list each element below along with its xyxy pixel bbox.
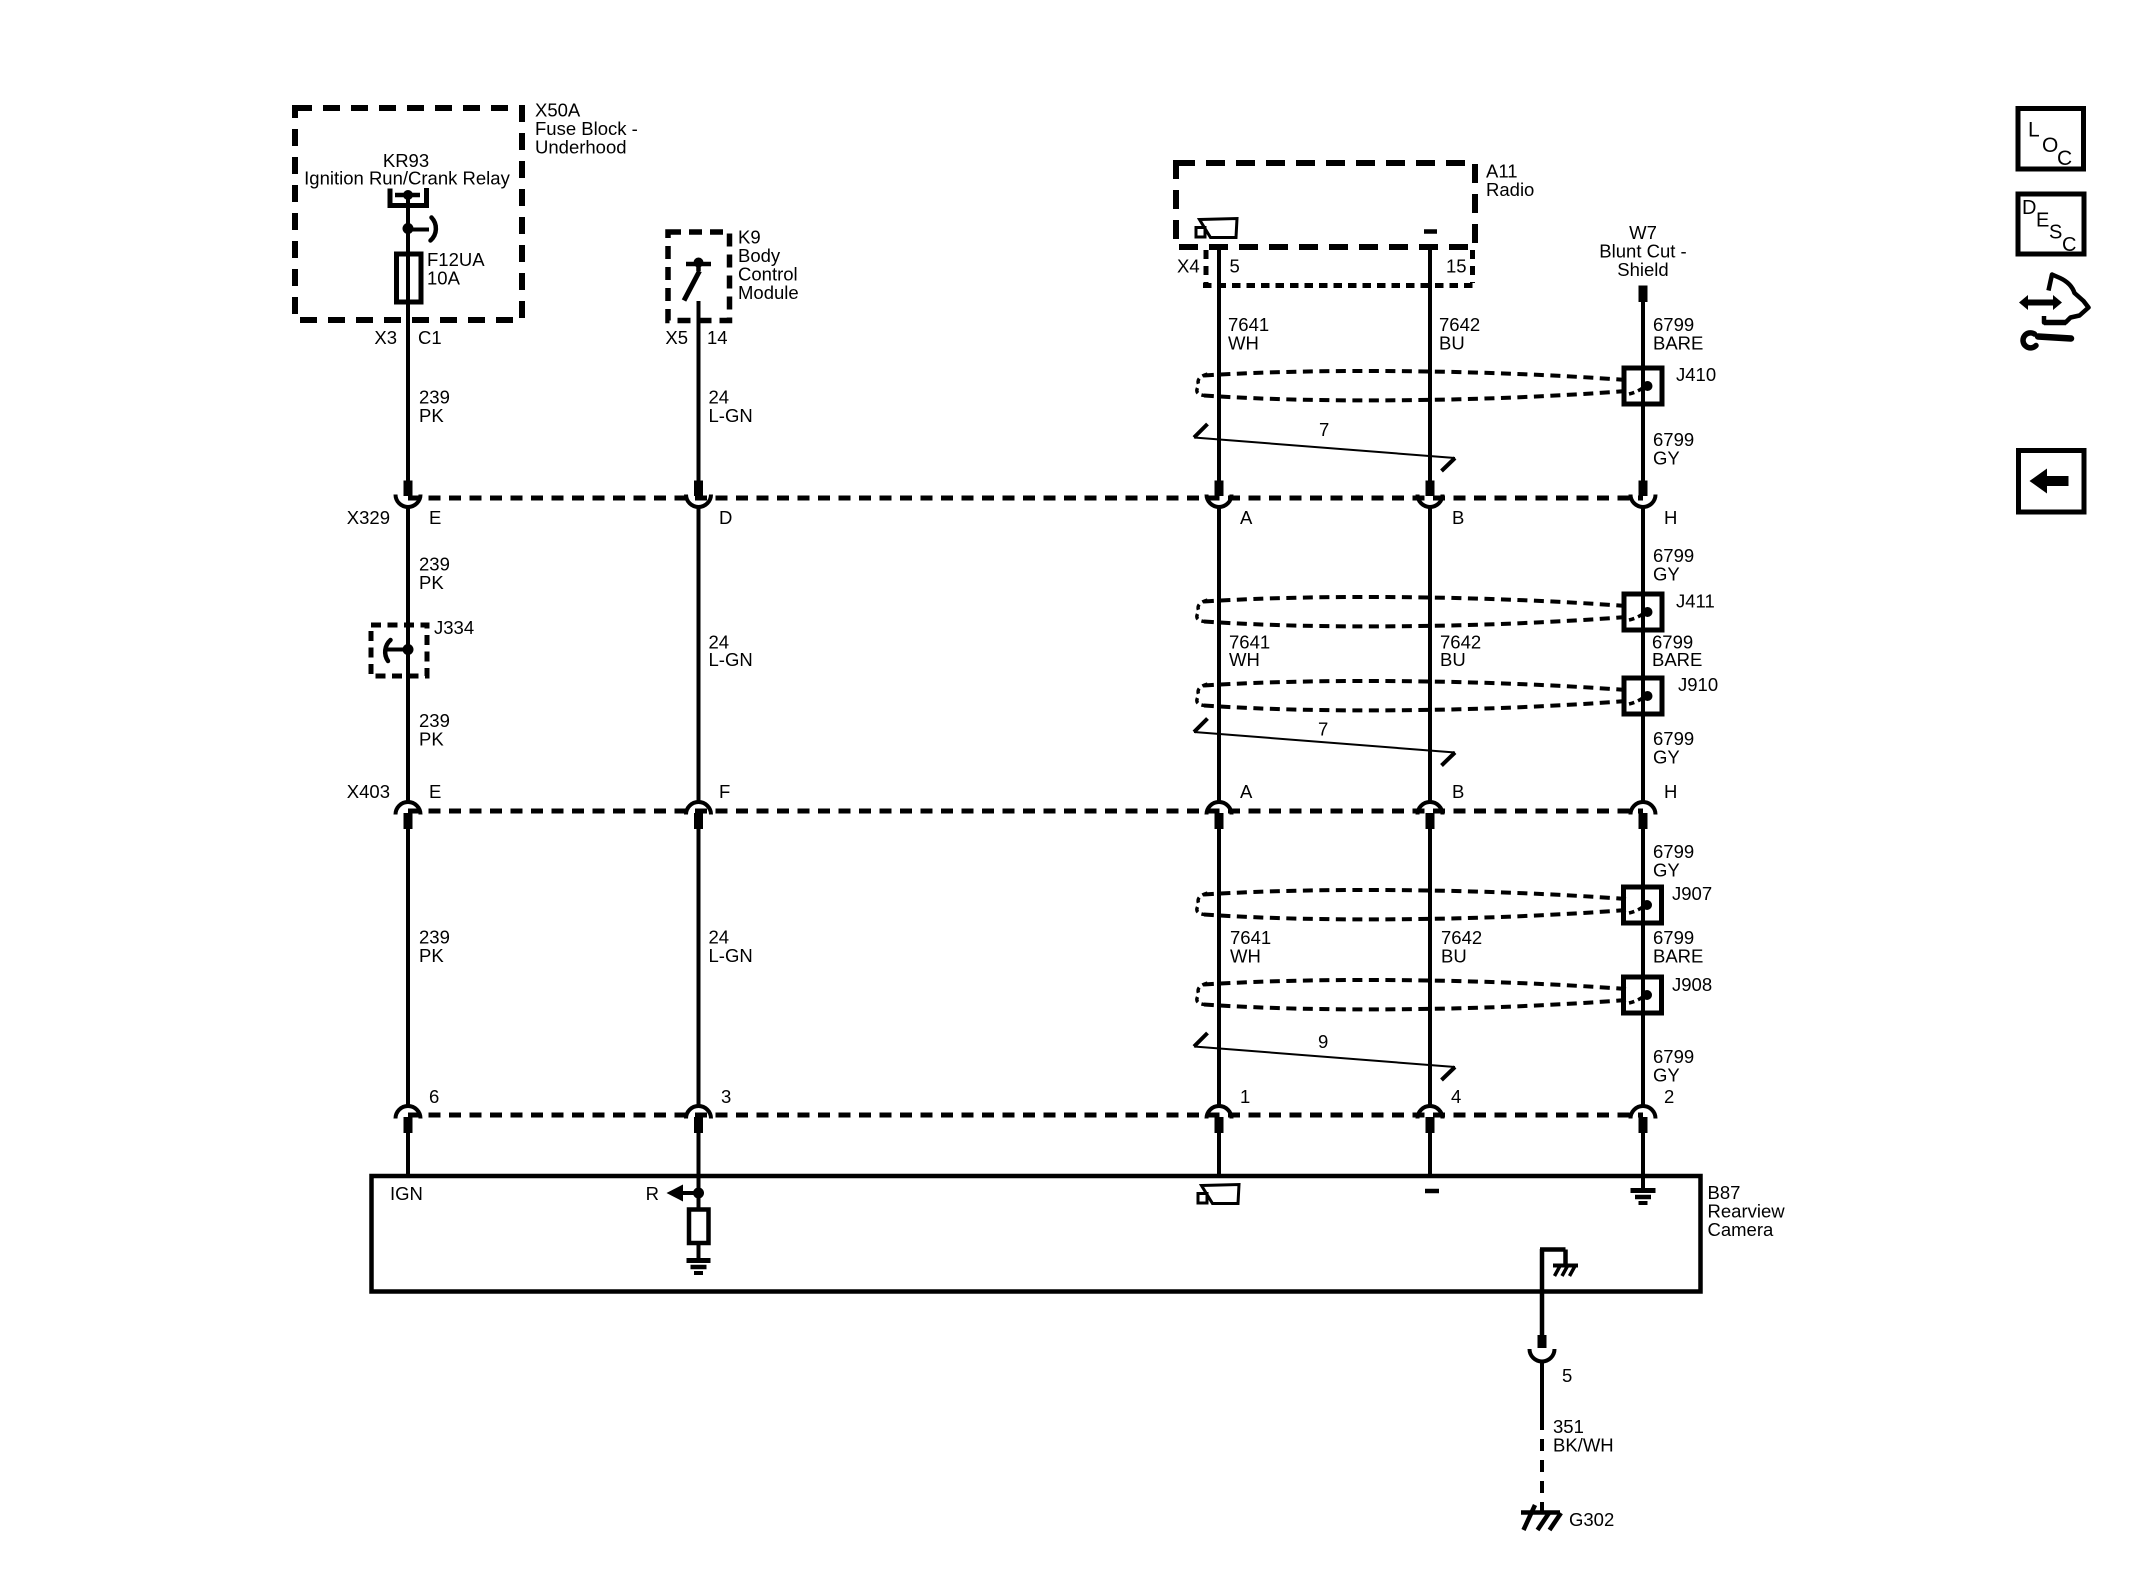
connector X5 14 labels xyxy=(665,327,727,348)
X329 terminal wire5 xyxy=(1631,481,1656,507)
svg-text:L-GN: L-GN xyxy=(709,405,753,426)
LOC icon box xyxy=(2018,109,2084,171)
svg-text:9: 9 xyxy=(1318,1031,1328,1052)
wire 239 PK section 2 xyxy=(406,507,410,803)
wires into camera box xyxy=(408,1133,1643,1176)
svg-text:S: S xyxy=(2049,222,2062,244)
svg-text:Underhood: Underhood xyxy=(535,137,627,158)
wire 7641 WH section 2 xyxy=(1217,507,1221,803)
svg-text:1: 1 xyxy=(1240,1086,1250,1107)
splice J908 xyxy=(1624,977,1662,1013)
svg-text:J910: J910 xyxy=(1678,674,1718,695)
label 239 PK section 1 xyxy=(419,387,450,427)
svg-text:J907: J907 xyxy=(1672,883,1712,904)
resistor inside camera xyxy=(689,1210,709,1259)
svg-text:Module: Module xyxy=(738,282,799,303)
fuse block X50A dashed box xyxy=(295,108,522,320)
harness repair icon wrench xyxy=(2023,333,2071,348)
labels X329 E D A B H xyxy=(347,507,1678,528)
label 24 L-GN section 2 xyxy=(709,632,753,671)
svg-text:C: C xyxy=(2057,147,2072,170)
splice J334 dashed box xyxy=(371,625,427,676)
labels X403 E F A B H xyxy=(347,781,1678,802)
svg-text:X4: X4 xyxy=(1177,256,1200,277)
crossing indicator 7 section 1 xyxy=(1194,424,1455,471)
X403 terminal wire3 xyxy=(1207,802,1232,829)
svg-text:R: R xyxy=(646,1183,659,1204)
svg-text:7: 7 xyxy=(1319,419,1329,440)
camera terminal wire2 pin 3 xyxy=(686,1106,711,1133)
label K9 Body Control Module xyxy=(738,227,799,304)
svg-text:GY: GY xyxy=(1653,860,1680,881)
X403 terminal wire1 xyxy=(396,802,421,829)
label 6799 GY section 2 lower xyxy=(1653,728,1694,768)
wire 351 BK/WH solid part xyxy=(1540,1362,1544,1419)
svg-text:BU: BU xyxy=(1441,946,1467,967)
J334 splice node xyxy=(385,640,413,661)
label 6799 GY section 1 xyxy=(1653,429,1694,469)
label 6799 BARE section 1 xyxy=(1653,314,1703,354)
svg-text:A: A xyxy=(1240,507,1253,528)
svg-text:GY: GY xyxy=(1653,747,1680,768)
wire 6799 shield drain xyxy=(1641,302,1645,481)
camera terminal wire4 pin 4 xyxy=(1418,1106,1443,1133)
svg-text:BARE: BARE xyxy=(1652,649,1702,670)
label 239 PK section 2 lower xyxy=(419,710,450,750)
camera connector row dashed line xyxy=(408,1113,1643,1118)
label A11 Radio xyxy=(1486,161,1534,201)
svg-text:J411: J411 xyxy=(1676,591,1715,612)
label 6799 GY section 2 upper xyxy=(1653,545,1694,585)
minus pin inside B87 xyxy=(1425,1189,1439,1194)
label X50A Fuse Block - Underhood xyxy=(535,100,638,158)
camera terminal wire5 pin 2 xyxy=(1631,1106,1656,1133)
svg-text:A: A xyxy=(1240,781,1253,802)
ground symbol under resistor xyxy=(687,1261,711,1274)
svg-text:Shield: Shield xyxy=(1617,259,1668,280)
connector row X403 dashed line xyxy=(408,809,1643,814)
label 239 PK section 2 upper xyxy=(419,554,450,594)
label F12UA 10A xyxy=(427,249,485,289)
svg-text:Radio: Radio xyxy=(1486,179,1534,200)
ground symbol under shield pin xyxy=(1631,1176,1656,1203)
camera icon inside B87 xyxy=(1198,1185,1239,1204)
wire 7641 WH from radio pin 5 xyxy=(1217,247,1221,481)
svg-text:B: B xyxy=(1452,781,1464,802)
X403 terminal wire5 xyxy=(1631,802,1656,829)
svg-text:E: E xyxy=(429,507,441,528)
X329 terminal wire2 xyxy=(686,481,711,507)
label 7641 WH section 1 xyxy=(1228,314,1269,354)
wire 24 L-GN section 2 xyxy=(697,507,701,803)
label J910 xyxy=(1678,674,1718,695)
label KR93 Ignition Run/Crank Relay xyxy=(304,150,510,189)
label 7642 BU section 1 xyxy=(1439,314,1480,354)
BCM K9 dashed box xyxy=(668,232,730,321)
svg-text:GY: GY xyxy=(1653,564,1680,585)
minus sign inside radio xyxy=(1424,229,1437,234)
svg-text:D: D xyxy=(2022,197,2036,219)
svg-text:BU: BU xyxy=(1440,649,1466,670)
svg-text:5: 5 xyxy=(1230,256,1240,277)
switch inside K9 xyxy=(684,258,711,301)
svg-text:Camera: Camera xyxy=(1708,1219,1775,1240)
svg-text:F: F xyxy=(719,781,730,802)
wire 24 L-GN from K9 xyxy=(697,301,701,481)
svg-text:7: 7 xyxy=(1318,719,1328,740)
wire 7642 BU from radio pin 15 xyxy=(1428,247,1432,481)
connector pin 5 below camera xyxy=(1530,1335,1555,1362)
wire 239 PK section 3 xyxy=(406,829,410,1106)
label J907 xyxy=(1672,883,1712,904)
splice J410 xyxy=(1624,368,1662,404)
wire 7642 BU section 2 xyxy=(1428,507,1432,803)
label J410 xyxy=(1676,364,1716,385)
labels pins 6 3 1 4 2 xyxy=(429,1086,1674,1107)
label 6799 GY section 3 upper xyxy=(1653,841,1694,881)
label W7 Blunt Cut - Shield xyxy=(1599,222,1686,280)
label J334 xyxy=(434,617,474,638)
svg-text:WH: WH xyxy=(1229,649,1260,670)
connector X3 C1 labels xyxy=(374,327,441,348)
label 7641 WH section 3 xyxy=(1230,927,1271,967)
connector row X329 dashed line xyxy=(408,496,1643,501)
svg-text:G302: G302 xyxy=(1569,1509,1614,1530)
svg-text:L: L xyxy=(2028,119,2040,142)
splice J907 xyxy=(1624,887,1662,923)
svg-text:O: O xyxy=(2042,134,2058,157)
svg-text:14: 14 xyxy=(707,327,728,348)
harness repair icon connector outline xyxy=(2044,275,2089,323)
twisted pair to J910 xyxy=(1197,681,1626,710)
svg-text:E: E xyxy=(2036,210,2049,232)
svg-text:X329: X329 xyxy=(347,507,390,528)
twisted pair to J410 xyxy=(1197,371,1626,400)
radio A11 dashed box xyxy=(1176,163,1475,247)
twisted pair to J907 xyxy=(1197,890,1626,919)
svg-text:X403: X403 xyxy=(347,781,390,802)
relay KR93 contact symbol xyxy=(388,188,430,206)
svg-text:X3: X3 xyxy=(374,327,397,348)
svg-text:5: 5 xyxy=(1562,1365,1572,1386)
label J908 xyxy=(1672,974,1712,995)
label 6799 GY section 3 lower xyxy=(1653,1046,1694,1086)
label G302 xyxy=(1569,1509,1614,1530)
relay junction node with clip xyxy=(403,218,436,241)
connector X4 strip of radio xyxy=(1203,250,1478,286)
svg-text:3: 3 xyxy=(721,1086,731,1107)
svg-text:J334: J334 xyxy=(434,617,474,638)
label 239 PK section 3 xyxy=(419,927,450,967)
label J411 xyxy=(1676,591,1715,612)
chassis ground inside camera xyxy=(1540,1249,1578,1336)
svg-text:15: 15 xyxy=(1446,256,1467,277)
wire 239 PK inside fuse block xyxy=(406,195,410,481)
svg-text:IGN: IGN xyxy=(390,1183,423,1204)
svg-text:Ignition Run/Crank Relay: Ignition Run/Crank Relay xyxy=(304,168,510,189)
label 7642 BU section 2 xyxy=(1440,632,1481,671)
svg-text:D: D xyxy=(719,507,732,528)
label 5 xyxy=(1562,1365,1572,1386)
splice J411 xyxy=(1624,594,1662,630)
svg-text:BARE: BARE xyxy=(1653,333,1703,354)
back arrow icon box xyxy=(2019,451,2085,513)
crossing indicator 7 section 2 xyxy=(1194,719,1455,766)
label 9 section 3 xyxy=(1318,1031,1328,1052)
label 351 BK/WH xyxy=(1553,1416,1614,1456)
camera terminal wire3 pin 1 xyxy=(1207,1106,1232,1133)
label B87 Rearview Camera xyxy=(1708,1182,1786,1240)
label 6799 BARE section 3 xyxy=(1653,927,1703,967)
wire 351 BK/WH dashed part xyxy=(1540,1418,1544,1512)
label 7642 BU section 3 xyxy=(1441,927,1482,967)
svg-text:E: E xyxy=(429,781,441,802)
harness repair icon double arrow xyxy=(2019,295,2062,310)
svg-text:BARE: BARE xyxy=(1653,946,1703,967)
X329 terminal wire4 xyxy=(1418,481,1443,507)
svg-text:2: 2 xyxy=(1664,1086,1674,1107)
label 6799 BARE section 2 xyxy=(1652,632,1702,671)
svg-text:4: 4 xyxy=(1451,1086,1461,1107)
crossing indicator 9 section 3 xyxy=(1194,1033,1455,1080)
svg-text:X5: X5 xyxy=(665,327,688,348)
svg-text:BU: BU xyxy=(1439,333,1465,354)
ground G302 xyxy=(1521,1505,1561,1530)
label IGN pin xyxy=(390,1183,423,1204)
label 7 section 2 xyxy=(1318,719,1328,740)
svg-text:C: C xyxy=(2062,234,2076,256)
wire 24 L-GN section 3 xyxy=(697,829,701,1106)
fuse F12UA 10A xyxy=(397,254,422,302)
svg-text:WH: WH xyxy=(1230,946,1261,967)
svg-text:J908: J908 xyxy=(1672,974,1712,995)
twisted pair to J908 xyxy=(1197,980,1626,1009)
svg-text:L-GN: L-GN xyxy=(709,945,753,966)
camera icon inside radio xyxy=(1196,219,1237,238)
svg-text:PK: PK xyxy=(419,572,444,593)
svg-text:GY: GY xyxy=(1653,1065,1680,1086)
blunt cut stub W7 xyxy=(1639,286,1648,303)
label R xyxy=(646,1183,659,1204)
svg-text:PK: PK xyxy=(419,405,444,426)
svg-text:PK: PK xyxy=(419,729,444,750)
X329 terminal wire3 xyxy=(1207,481,1232,507)
splice J910 xyxy=(1624,678,1662,714)
svg-text:10A: 10A xyxy=(427,268,461,289)
wire 7642 BU section 3 xyxy=(1428,829,1432,1106)
rearview camera B87 box xyxy=(372,1176,1701,1292)
wire 6799 GY section 2 xyxy=(1641,507,1645,803)
svg-text:WH: WH xyxy=(1228,333,1259,354)
svg-text:C1: C1 xyxy=(418,327,442,348)
label 7 section 1 xyxy=(1319,419,1329,440)
twisted pair to J411 xyxy=(1197,597,1626,626)
svg-text:B: B xyxy=(1452,507,1464,528)
svg-text:H: H xyxy=(1664,781,1677,802)
svg-text:BK/WH: BK/WH xyxy=(1553,1435,1614,1456)
svg-text:GY: GY xyxy=(1653,448,1680,469)
X403 terminal wire2 xyxy=(686,802,711,829)
label 24 L-GN section 3 xyxy=(709,927,753,967)
label 7641 WH section 2 xyxy=(1229,632,1270,671)
svg-text:L-GN: L-GN xyxy=(709,649,753,670)
label 24 L-GN section 1 xyxy=(709,387,753,427)
svg-text:PK: PK xyxy=(419,945,444,966)
DESC icon box xyxy=(2018,194,2084,256)
R output node with arrow xyxy=(667,1176,705,1210)
labels X4 5 15 xyxy=(1177,256,1467,277)
X329 terminal wire1 xyxy=(396,481,421,507)
wire 6799 GY section 3 xyxy=(1641,829,1645,1106)
wire 7641 WH section 3 xyxy=(1217,829,1221,1106)
X403 terminal wire4 xyxy=(1418,802,1443,829)
svg-text:J410: J410 xyxy=(1676,364,1716,385)
svg-text:H: H xyxy=(1664,507,1677,528)
svg-text:6: 6 xyxy=(429,1086,439,1107)
camera terminal wire1 pin 6 xyxy=(396,1106,421,1133)
